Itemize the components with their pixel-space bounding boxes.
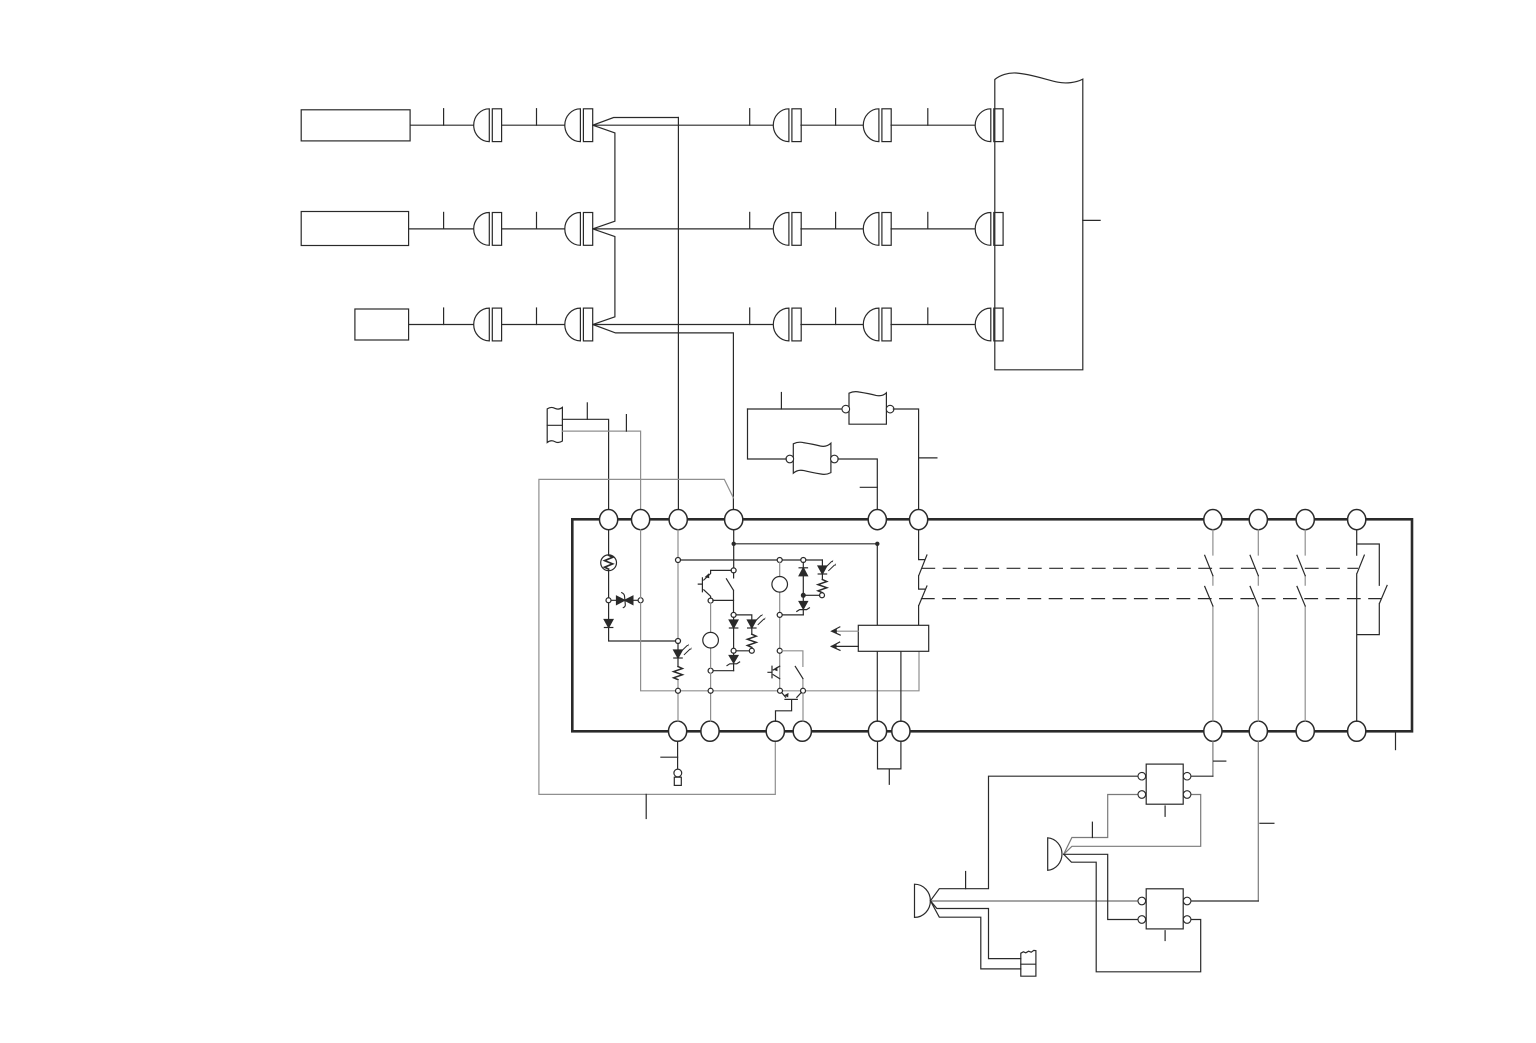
- wire to bottom pin4: [802, 693, 804, 721]
- jack J1 (torn-edge block): [849, 392, 886, 425]
- resistor R3: [747, 634, 756, 647]
- junction dot: [732, 542, 736, 546]
- wire marker tick: [835, 109, 837, 126]
- wire: [891, 324, 975, 326]
- terminal TP1: [674, 769, 682, 785]
- node ring: [801, 593, 806, 598]
- wire: [502, 324, 565, 326]
- wire CN8-1: [1064, 795, 1139, 855]
- pin U1 top5: [868, 509, 886, 529]
- wire row1 box to plug: [410, 124, 474, 126]
- wire top rail y560: [680, 559, 822, 561]
- node ring: [676, 639, 681, 644]
- switch S7 column: [919, 530, 927, 651]
- pin U1 bottom6: [892, 721, 910, 741]
- wire: [677, 681, 679, 722]
- wire marker tick: [835, 308, 837, 325]
- wire marker tick: [1260, 822, 1274, 824]
- connector CN row1-A: [474, 109, 502, 142]
- resistor R2: [818, 580, 827, 593]
- wire row3 box to plug: [409, 324, 474, 326]
- connector CN row3-A: [474, 308, 502, 341]
- resistor R1: [674, 667, 683, 680]
- wire marker tick: [661, 756, 678, 758]
- pin circle IC4-1: [1138, 897, 1146, 905]
- pin U1 bottom4: [793, 721, 811, 741]
- wire marker tick: [536, 308, 538, 325]
- node ring: [676, 558, 681, 563]
- node ring: [731, 612, 736, 617]
- wire CN8-2: [1064, 795, 1201, 855]
- wire marker tick: [860, 486, 877, 488]
- wire tee: [713, 599, 734, 601]
- node ring: [708, 688, 713, 693]
- wire row2 main: [593, 228, 774, 230]
- arrow in 1: [833, 630, 859, 632]
- wire row3 main: [593, 324, 774, 326]
- pin U1 top2: [632, 509, 650, 529]
- node ring: [708, 598, 713, 603]
- wire CN6-2: [930, 900, 1138, 902]
- wire marker tick: [749, 109, 751, 126]
- wire: [713, 670, 734, 672]
- pin U1 top8: [1249, 509, 1267, 529]
- wire branch row3 lower to pin4: [593, 325, 734, 510]
- connector CN row1-D: [863, 109, 891, 142]
- wire bottom pins 5+6 merge: [878, 741, 901, 784]
- switch S3 column (ganged): [1205, 530, 1213, 721]
- lamp PL1: [601, 555, 617, 571]
- zener ZD2: [797, 598, 810, 615]
- wire marker tick: [780, 393, 782, 410]
- node ring: [606, 598, 611, 603]
- block P1 (row1 source unit): [301, 110, 410, 141]
- wire: [891, 124, 975, 126]
- node ring: [820, 593, 825, 598]
- pin circle IC4-3: [1183, 897, 1191, 905]
- block P2 (row2 source unit): [301, 212, 408, 246]
- switch S6 (double contact with strap): [1357, 530, 1387, 721]
- wire row2 box to plug: [409, 228, 474, 230]
- linkage dashed line 2: [922, 598, 1381, 600]
- wire lamp to node: [608, 570, 610, 598]
- node ring: [777, 648, 782, 653]
- connector CN row2-B: [565, 213, 593, 246]
- wire CN8-3: [1064, 854, 1139, 919]
- wire bottom pin8 to IC4: [1257, 741, 1259, 901]
- transistor Q2 (photo): [768, 666, 780, 679]
- IC4 block: [1146, 889, 1183, 929]
- wire J1 to pin6: [893, 409, 918, 510]
- pin U1 bottom8: [1249, 721, 1267, 741]
- arrow in 2: [831, 645, 858, 647]
- wire CN5-1 to pin1: [562, 419, 608, 509]
- connector CN row1-E on main unit: [975, 109, 1003, 142]
- pin U1 top1: [600, 509, 618, 529]
- wire: [801, 228, 864, 230]
- pin circle IC4-2: [1138, 916, 1146, 924]
- wire marker tick: [965, 872, 967, 889]
- pin circle IC3-4: [1183, 791, 1191, 799]
- node ring: [778, 688, 783, 693]
- diode D1: [604, 603, 675, 641]
- pin circle J2 right: [831, 455, 839, 463]
- zener ZD1: [727, 653, 740, 671]
- wire: [801, 124, 864, 126]
- wire marker tick: [919, 457, 937, 459]
- linkage dashed line 1: [922, 567, 1358, 569]
- wire pin5 column: [876, 546, 878, 721]
- wire bus vertical to pin3: [677, 118, 679, 510]
- connector CN7 (2-pin, torn cable): [1021, 950, 1036, 976]
- wire bottom pin7 to IC3: [1212, 741, 1214, 776]
- node ring: [676, 688, 681, 693]
- pin U1 bottom2: [701, 721, 719, 741]
- IR receiver U2: [858, 625, 928, 651]
- wire marker tick: [645, 794, 647, 818]
- diode D3: [729, 617, 738, 648]
- connector CN5 (2-pin, torn cable): [547, 407, 562, 442]
- block main unit (torn-edge box): [995, 73, 1083, 370]
- wire marker tick: [443, 109, 445, 126]
- switch S2: [782, 651, 803, 689]
- wire branch row1 lower to row2: [593, 125, 615, 229]
- pin circle IC4-4: [1183, 916, 1191, 924]
- wire marker tick: [536, 212, 538, 229]
- wire marker tick: [1091, 822, 1093, 837]
- connector CN row2-D: [863, 213, 891, 246]
- pin circle IC3-3: [1183, 772, 1191, 780]
- wire pin3 down: [677, 530, 679, 639]
- connector CN row2-C: [773, 213, 801, 246]
- wire marker tick: [835, 212, 837, 229]
- wire marker tick: [927, 212, 929, 229]
- wire pin4 down with junction rail: [734, 530, 878, 568]
- switch S1: [726, 573, 733, 613]
- wire CN6-1: [930, 776, 1138, 901]
- pin U1 bottom3: [766, 721, 784, 741]
- pin U1 bottom10: [1348, 721, 1366, 741]
- wire motor branch: [710, 603, 712, 721]
- wire marker tick: [443, 308, 445, 325]
- wire J2 to pin5: [838, 459, 877, 510]
- node ring: [638, 598, 643, 603]
- pin U1 top9: [1296, 509, 1314, 529]
- pin U1 top6: [910, 509, 928, 529]
- pin U1 bottom5: [868, 721, 886, 741]
- varistor VA1: [611, 593, 638, 608]
- node ring: [777, 612, 782, 617]
- wire CN5-2 to pin2: [562, 431, 640, 510]
- wire: [502, 228, 565, 230]
- pin U1 top4: [725, 509, 743, 529]
- wire: [502, 124, 565, 126]
- transistor Q1 (photo): [698, 570, 731, 598]
- motor M2: [772, 577, 788, 593]
- connector CN row2-E on main unit: [975, 213, 1003, 246]
- wire pin1 down: [608, 530, 610, 554]
- node ring: [708, 668, 713, 673]
- block U1 (mechanism unit outline): [572, 519, 1412, 731]
- block P3 (row3 source unit): [355, 309, 409, 340]
- node ring: [801, 558, 806, 563]
- wire: [782, 614, 803, 616]
- wire pin6 lower column: [900, 650, 902, 721]
- connector CN row2-A: [474, 213, 502, 246]
- LED D5: [818, 560, 836, 580]
- connector CN8 (plug to control board): [1048, 838, 1062, 871]
- pin circle IC3-1: [1138, 772, 1146, 780]
- pin U1 top7: [1204, 509, 1222, 529]
- jack J2 (torn-edge block): [793, 442, 831, 474]
- wire sensor branch: [779, 562, 781, 688]
- wire branch row1 upper to bus: [593, 118, 679, 126]
- wire pin2 down and bottom rail: [641, 530, 919, 691]
- wire CN6-4: [930, 901, 1020, 969]
- switch S4 column (ganged): [1250, 530, 1258, 721]
- transistor Q3: [776, 692, 802, 721]
- connector CN row3-C: [773, 308, 801, 341]
- pin circle J2 left: [786, 455, 794, 463]
- wire: [736, 648, 752, 651]
- wire: [891, 228, 975, 230]
- connector CN row3-E on main unit: [975, 308, 1003, 341]
- wire marker tick: [536, 109, 538, 126]
- node ring: [749, 648, 754, 653]
- pin circle IC3-2: [1138, 791, 1146, 799]
- wire marker tick: [1164, 806, 1166, 816]
- wire marker tick: [749, 212, 751, 229]
- junction dot: [875, 542, 879, 546]
- wire to J1: [748, 408, 842, 410]
- wire loop to sub board (thin): [539, 479, 775, 794]
- connector CN row1-B: [565, 109, 593, 142]
- wire marker tick bottom right: [1395, 732, 1397, 750]
- motor M1: [703, 632, 719, 648]
- node ring: [731, 568, 736, 573]
- connector CN6 (plug to remote board): [915, 884, 931, 917]
- pin U1 bottom7: [1204, 721, 1222, 741]
- wire bottom pin1 down: [677, 741, 679, 768]
- node ring: [731, 648, 736, 653]
- LED D7: [736, 614, 766, 635]
- wire marker tick: [927, 308, 929, 325]
- wire: [821, 592, 823, 595]
- pin U1 top3: [669, 509, 687, 529]
- pin circle J1 right: [886, 405, 894, 413]
- node ring: [801, 688, 806, 693]
- wire marker tick: [443, 212, 445, 229]
- switch S5 column (ganged): [1297, 530, 1305, 721]
- wire marker tick on main unit: [1083, 219, 1100, 221]
- connector CN row3-B: [565, 308, 593, 341]
- pin U1 bottom1: [669, 721, 687, 741]
- wire: [801, 324, 864, 326]
- IC3 block: [1146, 764, 1183, 804]
- wire marker tick: [1164, 931, 1166, 941]
- wire row1 main: [593, 124, 774, 126]
- wire marker tick: [927, 109, 929, 126]
- LED D2: [674, 643, 692, 666]
- connector CN row1-C: [773, 109, 801, 142]
- pin circle J1 left: [842, 405, 850, 413]
- wire CN8-4: [1064, 854, 1201, 972]
- wire marker tick: [625, 415, 627, 432]
- wire: [806, 594, 820, 596]
- wire branch row2 lower to row3: [593, 229, 615, 325]
- wire marker tick: [749, 308, 751, 325]
- pin U1 top10: [1348, 509, 1366, 529]
- wire marker tick: [1214, 760, 1226, 762]
- connector CN row3-D: [863, 308, 891, 341]
- wire marker tick: [586, 403, 588, 419]
- diode D4: [799, 562, 807, 593]
- wire down to J2: [748, 409, 787, 459]
- node ring: [777, 558, 782, 563]
- wire CN6-3: [930, 901, 1020, 959]
- pin U1 bottom9: [1296, 721, 1314, 741]
